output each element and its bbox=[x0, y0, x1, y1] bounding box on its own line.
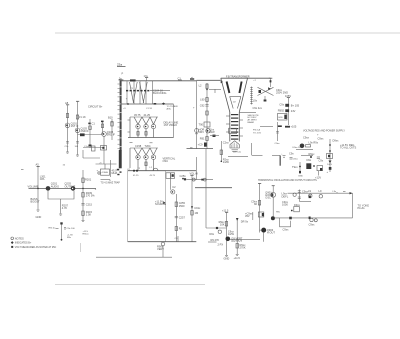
svg-text:105V: 105V bbox=[285, 94, 291, 98]
svg-text:TO 4.5 MHZ TRAP: TO 4.5 MHZ TRAP bbox=[101, 181, 121, 184]
svg-text:1.5K: 1.5K bbox=[86, 213, 92, 217]
svg-text:C257: C257 bbox=[179, 215, 186, 219]
svg-text:270 5%: 270 5% bbox=[86, 194, 95, 198]
svg-text:4.5MH: 4.5MH bbox=[102, 172, 109, 174]
svg-text:270K: 270K bbox=[240, 245, 246, 249]
svg-text:1ST IF: 1ST IF bbox=[71, 124, 79, 128]
svg-text:L90: L90 bbox=[200, 98, 205, 102]
svg-text:OSC: OSC bbox=[265, 196, 271, 200]
svg-text:L2x C2x: L2x C2x bbox=[233, 152, 242, 154]
svg-text:1500: 1500 bbox=[179, 204, 185, 208]
svg-text:1/2W: 1/2W bbox=[228, 232, 235, 236]
svg-text:A8: A8 bbox=[65, 101, 69, 105]
svg-text:MHZ: MHZ bbox=[112, 171, 118, 175]
svg-text:R91: R91 bbox=[200, 137, 205, 141]
svg-text:C251: C251 bbox=[180, 174, 187, 178]
svg-text:17e: 17e bbox=[144, 74, 149, 78]
svg-text:2 PX: 2 PX bbox=[218, 243, 224, 247]
svg-text:AUDIO: AUDIO bbox=[51, 184, 59, 188]
svg-text:C9x: C9x bbox=[279, 103, 284, 107]
svg-text:GND: GND bbox=[224, 257, 230, 261]
svg-text:TO ALL CKTS: TO ALL CKTS bbox=[340, 146, 357, 150]
svg-text:R9 47K: R9 47K bbox=[211, 238, 220, 242]
svg-text:C92: C92 bbox=[200, 104, 205, 108]
svg-text:D9xx 1K: D9xx 1K bbox=[293, 147, 302, 149]
svg-text:BLOCKING: BLOCKING bbox=[153, 91, 166, 95]
svg-text:C9xx: C9xx bbox=[303, 135, 310, 139]
svg-text:35V: 35V bbox=[245, 214, 250, 218]
svg-text:BEAM: BEAM bbox=[248, 121, 254, 124]
svg-text:+11.5: +11.5 bbox=[222, 208, 229, 212]
svg-text:GND: GND bbox=[36, 215, 42, 219]
svg-text:1/2W: 1/2W bbox=[209, 130, 216, 134]
svg-text:C2: C2 bbox=[172, 185, 176, 189]
svg-text:T90: T90 bbox=[199, 123, 204, 127]
svg-text:P: P bbox=[122, 72, 124, 76]
svg-text:C9x: C9x bbox=[289, 151, 294, 155]
svg-text:DR 9x: DR 9x bbox=[241, 219, 249, 223]
svg-text:4.7K: 4.7K bbox=[62, 206, 68, 210]
svg-text:L9x: L9x bbox=[253, 98, 258, 102]
svg-text:T9xx: T9xx bbox=[292, 165, 298, 169]
svg-text:AGC: AGC bbox=[167, 108, 172, 111]
svg-text:CPL: CPL bbox=[40, 177, 46, 181]
svg-text:VOLTAGE REG AND POWER SUPPLY: VOLTAGE REG AND POWER SUPPLY bbox=[303, 129, 345, 132]
svg-text:NOTES: NOTES bbox=[15, 236, 24, 240]
svg-text:1000: 1000 bbox=[282, 203, 288, 207]
svg-text:1ST VIDEO: 1ST VIDEO bbox=[164, 123, 178, 127]
svg-text:R9xxx: R9xxx bbox=[83, 233, 90, 235]
svg-text:T204: T204 bbox=[145, 144, 151, 148]
svg-text:INDICATES B+: INDICATES B+ bbox=[15, 242, 32, 245]
svg-text:R1 1K: R1 1K bbox=[79, 115, 86, 119]
svg-text:3RD IF: 3RD IF bbox=[107, 133, 116, 137]
svg-text:C9xx: C9xx bbox=[283, 228, 290, 232]
svg-text:PLUG: PLUG bbox=[358, 206, 365, 210]
svg-text:+C9: +C9 bbox=[198, 143, 203, 147]
svg-text:C215: C215 bbox=[86, 203, 93, 207]
svg-text:VOLUME: VOLUME bbox=[28, 184, 39, 188]
svg-text:D9xx: D9xx bbox=[294, 203, 301, 207]
svg-text:OSC: OSC bbox=[163, 159, 169, 163]
svg-text:C91x: C91x bbox=[194, 206, 201, 210]
svg-text:24V: 24V bbox=[291, 109, 296, 113]
svg-text:D9xx: D9xx bbox=[333, 138, 340, 142]
svg-text:VERT: VERT bbox=[157, 247, 164, 251]
svg-text:OUTPUT: OUTPUT bbox=[65, 184, 76, 188]
svg-text:C9x 4xx: C9x 4xx bbox=[253, 106, 263, 110]
svg-text:B+ 105: B+ 105 bbox=[291, 104, 300, 108]
svg-text:B10: B10 bbox=[108, 116, 113, 120]
svg-text:GND: GND bbox=[298, 175, 303, 177]
svg-text:C9x: C9x bbox=[319, 158, 324, 162]
svg-text:VOLT MEASURED AS NOTED AT 25C: VOLT MEASURED AS NOTED AT 25C bbox=[15, 246, 57, 249]
svg-text:45.75: 45.75 bbox=[134, 113, 141, 117]
svg-text:D9x: D9x bbox=[307, 158, 312, 162]
svg-text:1/2W: 1/2W bbox=[223, 160, 230, 164]
svg-text:C9xx: C9xx bbox=[309, 222, 316, 226]
svg-text:+12V: +12V bbox=[315, 176, 321, 180]
svg-text:C1: C1 bbox=[92, 122, 96, 126]
svg-text:DEFL: DEFL bbox=[282, 194, 289, 198]
svg-text:TO 4.5V: TO 4.5V bbox=[253, 132, 262, 134]
svg-text:H OUT: H OUT bbox=[267, 231, 275, 235]
svg-text:C1 18: C1 18 bbox=[146, 108, 153, 110]
svg-text:C158: C158 bbox=[135, 144, 142, 148]
svg-text:1M: 1M bbox=[195, 211, 199, 215]
svg-text:DRV: DRV bbox=[199, 130, 205, 134]
svg-text:41.25: 41.25 bbox=[144, 113, 151, 117]
svg-text:+11.5: +11.5 bbox=[234, 256, 241, 260]
svg-text:41.25: 41.25 bbox=[133, 175, 139, 177]
svg-text:+105: +105 bbox=[291, 125, 297, 129]
svg-text:2ND IF: 2ND IF bbox=[81, 129, 90, 133]
svg-text:C9xx: C9xx bbox=[318, 136, 325, 140]
svg-text:R201: R201 bbox=[85, 178, 92, 182]
svg-text:R2: R2 bbox=[179, 227, 183, 231]
svg-text:C9x 100: C9x 100 bbox=[67, 228, 76, 230]
svg-text:F9x 1A: F9x 1A bbox=[253, 129, 260, 132]
svg-text:22a: 22a bbox=[117, 63, 122, 67]
svg-text:A5: A5 bbox=[36, 162, 40, 166]
svg-text:HORIZONTAL OSCILLATOR AND OUTP: HORIZONTAL OSCILLATOR AND OUTPUT CIRCUIT… bbox=[258, 179, 317, 182]
svg-text:R9x 4x: R9x 4x bbox=[49, 227, 57, 229]
svg-text:BOOST: BOOST bbox=[31, 200, 40, 204]
svg-text:C2xx: C2xx bbox=[223, 141, 230, 145]
svg-text:45.75: 45.75 bbox=[150, 175, 156, 177]
svg-text:10K: 10K bbox=[220, 222, 225, 226]
svg-text:FB92: FB92 bbox=[278, 109, 285, 113]
svg-text:L9x R9x: L9x R9x bbox=[309, 140, 319, 144]
svg-text:CIRCUIT B+: CIRCUIT B+ bbox=[88, 105, 103, 109]
svg-text:D9x: D9x bbox=[209, 232, 214, 236]
